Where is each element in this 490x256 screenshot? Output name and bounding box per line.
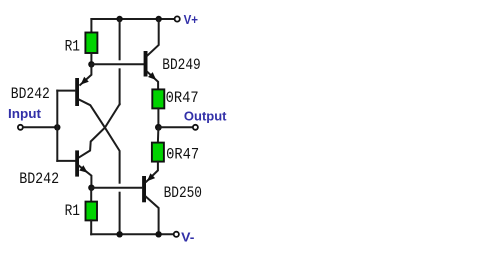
- BD242 top emitter wire: [80, 64, 91, 85]
- terminal V-: [174, 232, 179, 237]
- BD249 emitter arrow (NPN): [148, 72, 156, 80]
- svg-text:0R47: 0R47: [166, 89, 199, 107]
- transistor BD249 base bar: [144, 51, 148, 77]
- dot of slashed zero (0R47 top): [169, 95, 171, 97]
- label BD242 (bottom): [19, 170, 59, 188]
- label V-: [181, 230, 194, 245]
- wire V+ to R1: [90, 19, 92, 34]
- label 0R47 (top): [166, 89, 199, 107]
- label R1 (bottom): [65, 202, 80, 220]
- wire V- rail: [91, 233, 176, 235]
- wire R1 to node A: [90, 53, 92, 64]
- BD250 collector wire: [146, 197, 159, 235]
- crossover gap at node A wire: [118, 60, 122, 68]
- BD242 top emitter arrow (PNP): [81, 77, 89, 85]
- BD249 collector wire: [147, 19, 158, 56]
- wire 0R47 top to output node: [157, 108, 159, 127]
- BD242 bottom emitter arrow: [79, 165, 87, 173]
- junction on V- rail (BD250 collector): [155, 231, 161, 237]
- resistor 0R47 (top): [152, 89, 164, 108]
- wire node B to R1 bottom: [90, 188, 92, 202]
- label Output: [184, 109, 227, 124]
- label 0R47 (bottom): [166, 146, 199, 164]
- svg-text:Output: Output: [184, 109, 227, 124]
- label R1 (top): [65, 37, 80, 55]
- svg-text:BD242: BD242: [19, 170, 59, 188]
- wire output node to terminal: [158, 126, 194, 128]
- label BD242 (top): [11, 85, 50, 103]
- resistor 0R47 (bottom): [152, 143, 164, 162]
- BD250 emitter arrow (PNP): [147, 173, 155, 181]
- wire input terminal to input node: [23, 126, 57, 128]
- svg-text:V+: V+: [184, 12, 199, 27]
- junction on V+ rail (centre vertical): [116, 16, 122, 22]
- junction on V+ rail (BD249 collector): [156, 16, 162, 22]
- wire input column to BD242 top base: [57, 90, 75, 92]
- dot of slashed zero (0R47 bottom): [169, 152, 171, 154]
- label BD249: [162, 56, 200, 74]
- label BD250: [164, 184, 202, 202]
- junction on V- rail (centre vertical): [116, 231, 122, 237]
- transistor BD250 base bar: [142, 176, 146, 202]
- label V+: [184, 12, 199, 27]
- svg-text:V-: V-: [181, 230, 194, 245]
- node A junction: [88, 61, 94, 67]
- wire input column to BD242 bottom base: [57, 160, 75, 162]
- svg-text:BD249: BD249: [162, 56, 200, 74]
- BD242 top collector wire: [79, 100, 120, 235]
- transistor BD242 (bottom) base bar: [75, 150, 79, 176]
- input node junction: [54, 124, 60, 130]
- wire output node to 0R47 bottom: [157, 127, 160, 142]
- terminal V+: [175, 16, 180, 21]
- terminal Input: [18, 125, 23, 130]
- wire node A to BD249 base: [91, 63, 143, 65]
- svg-text:BD250: BD250: [164, 184, 202, 202]
- label Input: [8, 106, 42, 121]
- output node junction: [155, 124, 162, 131]
- resistor R1 (top): [85, 33, 97, 54]
- svg-text:BD242: BD242: [11, 85, 50, 103]
- crossover gap at node B wire: [118, 184, 122, 192]
- node B junction: [88, 185, 94, 191]
- BD242 bottom emitter wire: [79, 166, 91, 188]
- BD249 emitter wire: [147, 72, 158, 90]
- BD250 emitter wire: [146, 162, 158, 182]
- transistor BD242 (top) base bar: [75, 78, 79, 106]
- wire centre vertical from V+ rail: [119, 19, 121, 104]
- wire input column vertical: [56, 91, 58, 161]
- crossover wire to BD242 bottom collector: [79, 104, 120, 157]
- wire R1 bottom to V- rail: [90, 220, 92, 234]
- svg-text:Input: Input: [8, 106, 42, 121]
- svg-text:R1: R1: [65, 202, 80, 220]
- terminal Output: [193, 125, 198, 130]
- svg-text:0R47: 0R47: [166, 146, 199, 164]
- resistor R1 (bottom): [86, 202, 98, 221]
- wire node B to BD250 base: [91, 187, 142, 189]
- svg-text:R1: R1: [65, 37, 80, 55]
- wire V+ rail: [91, 18, 176, 20]
